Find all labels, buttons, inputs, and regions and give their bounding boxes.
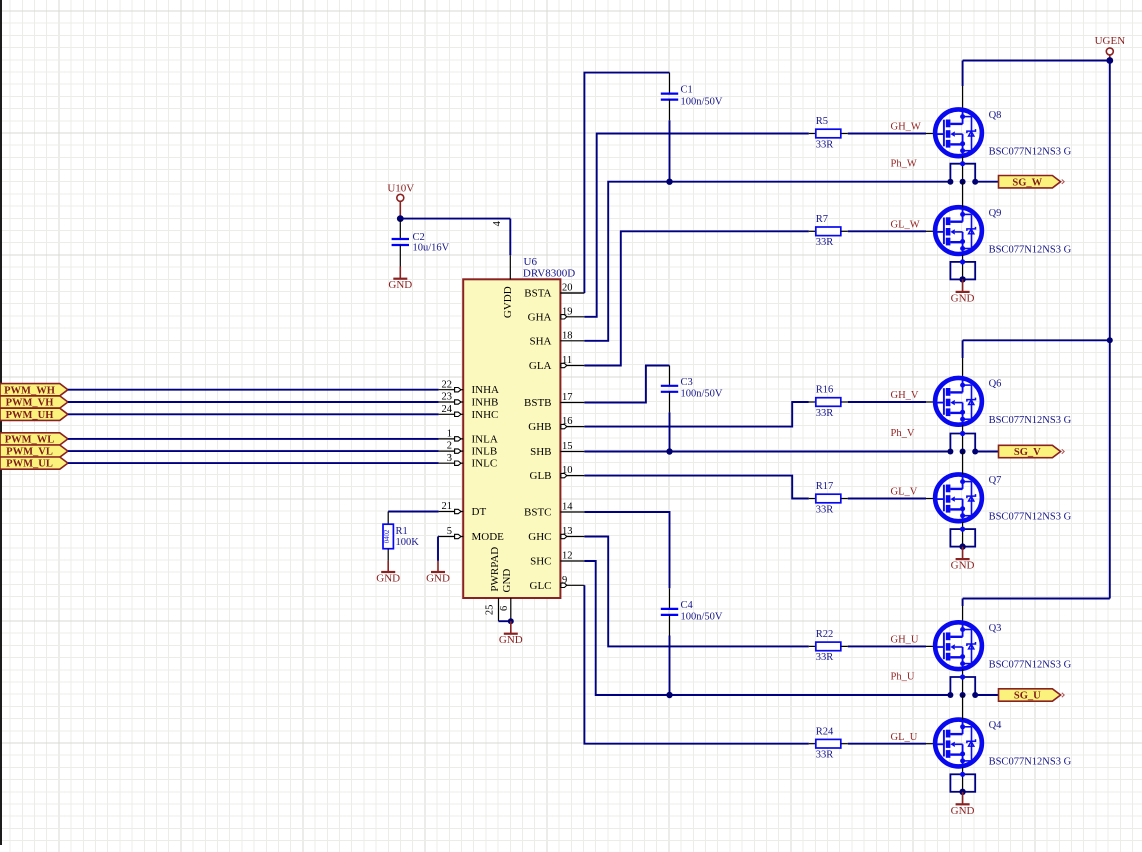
svg-text:INLC: INLC — [472, 458, 498, 470]
svg-text:R24: R24 — [816, 726, 834, 737]
svg-text:BSC077N12NS3 G: BSC077N12NS3 G — [989, 415, 1072, 426]
svg-text:C1: C1 — [681, 85, 693, 96]
pin 18 SHA — [560, 340, 584, 342]
svg-text:INLA: INLA — [472, 433, 498, 445]
svg-text:33R: 33R — [816, 139, 834, 150]
wire BSTC to C4 — [584, 512, 669, 588]
svg-text:BSC077N12NS3 G: BSC077N12NS3 G — [989, 147, 1072, 158]
svg-text:Q3: Q3 — [989, 623, 1002, 634]
wire DT to R1 — [388, 511, 438, 513]
pin 6 GND — [510, 598, 512, 621]
pin 5 MODE — [439, 536, 464, 538]
port SG_V — [999, 445, 1061, 457]
svg-text:GND: GND — [376, 573, 400, 585]
Q6 source strap — [962, 425, 964, 452]
capacitor C4 — [669, 588, 671, 609]
wire PWM_UL to IC — [68, 462, 439, 464]
svg-text:GND: GND — [951, 560, 975, 572]
port SG_U — [999, 689, 1061, 701]
svg-text:18: 18 — [562, 330, 573, 341]
svg-text:INHA: INHA — [472, 384, 500, 396]
svg-text:SHB: SHB — [530, 446, 551, 458]
pin 21 DT — [439, 511, 464, 513]
pin 25 PWRPAD — [498, 598, 500, 621]
transistor Q4 source strap — [962, 767, 964, 792]
wire R7 to gate — [848, 230, 926, 232]
pin 9 GLC — [560, 584, 584, 586]
ground below R1 — [387, 561, 389, 572]
node Ph_V / C3 — [666, 448, 672, 454]
wire R5 to gate — [848, 133, 926, 135]
wire BSTA to C1 — [560, 292, 584, 294]
svg-text:DRV8300D: DRV8300D — [523, 268, 575, 280]
wire SHB to Ph_V row — [584, 451, 950, 453]
svg-text:PWM_VH: PWM_VH — [6, 398, 54, 409]
port PWM_VL — [0, 445, 68, 457]
svg-text:PWM_WL: PWM_WL — [5, 435, 55, 446]
capacitor C2 — [399, 220, 401, 239]
svg-text:5: 5 — [447, 526, 452, 537]
svg-text:PWM_UL: PWM_UL — [6, 459, 53, 470]
IC body U6 DRV8300D — [463, 279, 560, 598]
svg-text:21: 21 — [442, 501, 453, 512]
svg-text:R17: R17 — [816, 481, 834, 492]
ground below U6 — [510, 621, 512, 634]
wire GLB to GL_V row — [584, 476, 808, 499]
ground below Q7 — [962, 547, 964, 560]
svg-text:BSC077N12NS3 G: BSC077N12NS3 G — [989, 659, 1072, 670]
wire PWM_WH to IC — [68, 389, 439, 391]
svg-text:33R: 33R — [816, 237, 834, 248]
Q8 source strap — [962, 156, 964, 181]
pin 10 GLB — [560, 475, 584, 477]
svg-text:DT: DT — [472, 506, 487, 518]
svg-text:GHA: GHA — [528, 311, 552, 323]
svg-text:33R: 33R — [816, 652, 834, 663]
svg-text:100n/50V: 100n/50V — [681, 96, 723, 107]
svg-text:Ph_U: Ph_U — [891, 672, 915, 683]
pin 19 GHA — [560, 316, 584, 318]
wire UGEN to Q8 drain — [963, 60, 1110, 62]
svg-text:GND: GND — [951, 805, 975, 817]
transistor Q7 drain wire — [962, 452, 964, 475]
svg-text:MODE: MODE — [472, 531, 505, 543]
transistor Q6 — [935, 378, 982, 426]
resistor R5 — [809, 133, 816, 135]
svg-text:R1: R1 — [396, 526, 408, 537]
svg-text:GLB: GLB — [530, 470, 552, 482]
port SG_W — [999, 176, 1061, 188]
wire phase to SG_V — [975, 451, 998, 453]
svg-text:GL_W: GL_W — [891, 219, 920, 230]
transistor Q3 — [935, 622, 982, 670]
wire rail to Q6 drain — [963, 339, 1110, 341]
wire GHC to GH_U row — [584, 537, 808, 647]
pin 12 SHC — [560, 560, 584, 562]
ground below Q4 — [962, 792, 964, 805]
svg-text:GH_V: GH_V — [891, 390, 919, 401]
sheet edge — [0, 0, 2, 845]
wire R24 to gate — [848, 743, 926, 745]
node U10V junction — [397, 215, 404, 222]
port PWM_VH — [0, 396, 68, 408]
wire rail to Q3 drain — [963, 598, 1110, 600]
svg-text:33R: 33R — [816, 408, 834, 419]
svg-text:GL_U: GL_U — [891, 732, 918, 743]
node UGEN junction — [1106, 57, 1113, 64]
wire GHA to GH_W row — [584, 134, 808, 317]
svg-text:BSC077N12NS3 G: BSC077N12NS3 G — [989, 244, 1072, 255]
resistor R22 — [809, 645, 816, 647]
svg-text:23: 23 — [442, 392, 453, 403]
svg-text:BSTA: BSTA — [524, 288, 551, 300]
svg-text:0402: 0402 — [384, 529, 391, 543]
svg-text:Q9: Q9 — [989, 208, 1002, 219]
svg-text:BSC077N12NS3 G: BSC077N12NS3 G — [989, 512, 1072, 523]
svg-text:SG_V: SG_V — [1014, 447, 1041, 458]
svg-text:PWM_VL: PWM_VL — [6, 447, 53, 458]
pin 16 GHB — [560, 426, 584, 428]
svg-text:Q8: Q8 — [989, 110, 1002, 121]
svg-text:14: 14 — [562, 502, 573, 513]
wire GHB to GH_V row — [584, 402, 808, 427]
svg-text:U10V: U10V — [387, 183, 414, 195]
svg-text:17: 17 — [562, 392, 573, 403]
svg-text:2: 2 — [447, 441, 452, 452]
pin 2 INLB — [439, 450, 464, 452]
ground below C2 — [399, 267, 401, 279]
wire PWM_UH to IC — [68, 413, 439, 415]
transistor Q9 — [935, 207, 982, 255]
wire SHC to Ph_U row — [584, 561, 950, 695]
wire C1 to Ph_W — [669, 100, 671, 121]
svg-text:GVDD: GVDD — [502, 286, 514, 318]
svg-text:GLC: GLC — [530, 580, 552, 592]
wire R22 to gate — [848, 645, 926, 647]
svg-text:GND: GND — [426, 573, 450, 585]
pin 3 INLC — [439, 462, 464, 464]
transistor Q9 drain wire — [962, 182, 964, 208]
svg-text:20: 20 — [562, 283, 573, 294]
transistor Q8 — [935, 109, 982, 157]
svg-text:24: 24 — [442, 404, 453, 415]
svg-text:GND: GND — [388, 279, 412, 291]
wire UGEN rail — [1109, 61, 1111, 599]
wire PWRPAD to GND pin — [499, 620, 511, 622]
svg-text:SHA: SHA — [529, 335, 551, 347]
transistor Q9 source strap — [962, 255, 964, 280]
wire GLC to GL_U row — [584, 585, 808, 743]
wire GLA to GL_W row — [584, 231, 808, 365]
port PWM_WL — [0, 433, 68, 445]
ground below MODE — [437, 561, 439, 572]
svg-text:PWM_WH: PWM_WH — [4, 385, 55, 396]
svg-text:R7: R7 — [816, 214, 828, 225]
pin 13 GHC — [560, 536, 584, 538]
svg-text:1: 1 — [447, 429, 452, 440]
svg-text:Ph_W: Ph_W — [891, 158, 917, 169]
svg-text:GHB: GHB — [528, 421, 551, 433]
wire PWM_WL to IC — [68, 438, 439, 440]
svg-text:SG_W: SG_W — [1012, 177, 1042, 188]
svg-text:C4: C4 — [681, 600, 694, 611]
node pins 25-6 junction — [508, 618, 514, 624]
svg-text:R22: R22 — [816, 629, 834, 640]
svg-text:INLB: INLB — [472, 446, 498, 458]
svg-text:PWRPAD: PWRPAD — [489, 547, 501, 592]
pin 14 BSTC — [560, 511, 584, 513]
resistor R16 — [809, 401, 816, 403]
svg-text:GH_W: GH_W — [891, 122, 921, 133]
svg-text:UGEN: UGEN — [1095, 35, 1126, 47]
svg-text:33R: 33R — [816, 750, 834, 761]
pin 23 INHB — [439, 401, 464, 403]
wire PWM_VH to IC — [68, 401, 439, 403]
node Ph_W / C1 — [666, 179, 672, 185]
wire R16 to gate — [848, 401, 926, 403]
svg-text:BSC077N12NS3 G: BSC077N12NS3 G — [989, 757, 1072, 768]
svg-text:33R: 33R — [816, 504, 834, 515]
svg-text:INHB: INHB — [472, 397, 499, 409]
pin 11 GLA — [560, 365, 584, 367]
svg-text:25: 25 — [484, 605, 495, 616]
pin 1 INLA — [439, 438, 464, 440]
pin 24 INHC — [439, 413, 464, 415]
svg-text:GND: GND — [499, 634, 523, 646]
svg-text:10u/16V: 10u/16V — [413, 243, 450, 254]
resistor R17 — [809, 498, 816, 500]
resistor R7 — [809, 230, 816, 232]
svg-text:4: 4 — [492, 220, 503, 226]
capacitor C1 — [669, 73, 671, 94]
transistor Q7 source strap — [962, 522, 964, 547]
port PWM_UH — [0, 408, 68, 420]
wire phase to SG_W — [975, 181, 998, 183]
pin 17 BSTB — [560, 402, 584, 404]
pin 20 BSTA — [560, 292, 584, 294]
svg-text:Q6: Q6 — [989, 379, 1002, 390]
Q3 source strap — [962, 669, 964, 695]
svg-text:100K: 100K — [396, 537, 420, 548]
transistor Q4 drain wire — [962, 695, 964, 720]
wire SHA to Ph_W row — [584, 182, 950, 341]
svg-text:15: 15 — [562, 441, 573, 452]
port PWM_UL — [0, 457, 68, 469]
pin 4 GVDD — [509, 255, 511, 279]
svg-text:INHC: INHC — [472, 409, 499, 421]
svg-text:BSTC: BSTC — [524, 507, 552, 519]
svg-text:GND: GND — [951, 292, 975, 304]
svg-text:GL_V: GL_V — [891, 487, 918, 498]
transistor Q7 — [935, 474, 982, 522]
wire C3 to Ph_V — [669, 392, 671, 413]
svg-text:BSTB: BSTB — [524, 397, 552, 409]
wire R17 to gate — [848, 498, 926, 500]
resistor R24 — [809, 743, 816, 745]
transistor Q4 — [935, 720, 982, 768]
wire PWM_VL to IC — [68, 450, 439, 452]
wire phase to SG_U — [975, 694, 998, 696]
wire BSTB to C3 — [584, 366, 669, 403]
svg-text:GH_U: GH_U — [891, 635, 919, 646]
wire MODE to ground — [437, 536, 440, 538]
svg-text:C2: C2 — [413, 232, 425, 243]
svg-text:SG_U: SG_U — [1014, 691, 1041, 702]
capacitor C3 — [669, 366, 671, 386]
svg-text:Q4: Q4 — [989, 720, 1003, 731]
svg-text:R5: R5 — [816, 116, 828, 127]
svg-text:GND: GND — [501, 569, 513, 593]
pin 15 SHB — [560, 451, 584, 453]
svg-text:100n/50V: 100n/50V — [681, 389, 723, 400]
svg-text:R16: R16 — [816, 385, 834, 396]
svg-text:6: 6 — [499, 606, 510, 611]
svg-text:GLA: GLA — [529, 360, 552, 372]
svg-text:C3: C3 — [681, 377, 693, 388]
node Ph_U / C4 — [666, 692, 672, 698]
svg-text:Ph_V: Ph_V — [891, 428, 915, 439]
wire C4 to Ph_U — [669, 615, 671, 636]
svg-text:SHC: SHC — [530, 556, 551, 568]
svg-text:3: 3 — [447, 453, 452, 464]
svg-text:Q7: Q7 — [989, 475, 1002, 486]
wire U10V to GVDD pin 4 — [400, 218, 510, 220]
svg-text:12: 12 — [562, 551, 573, 562]
pin 22 INHA — [439, 389, 464, 391]
svg-text:PWM_UH: PWM_UH — [6, 410, 54, 421]
node rail to Q6 — [1107, 337, 1113, 343]
svg-text:GHC: GHC — [528, 531, 551, 543]
svg-text:22: 22 — [442, 379, 453, 390]
svg-text:100n/50V: 100n/50V — [681, 612, 723, 623]
ground below Q9 — [962, 279, 964, 292]
port PWM_WH — [0, 384, 68, 396]
svg-text:U6: U6 — [524, 256, 538, 268]
resistor R1 — [387, 512, 389, 525]
